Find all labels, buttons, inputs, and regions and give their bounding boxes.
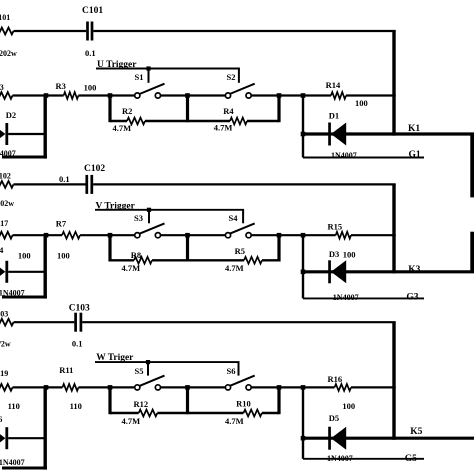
value 100	[343, 249, 356, 259]
wire left loop vertical	[44, 387, 47, 469]
wire	[251, 93, 331, 98]
switch S3	[134, 213, 165, 238]
svg-text:100: 100	[342, 401, 355, 411]
wire left loop vertical	[44, 235, 47, 298]
node U trigger bus	[96, 60, 240, 71]
svg-text:G3: G3	[406, 292, 418, 302]
wire	[78, 93, 134, 98]
svg-text:0.1: 0.1	[59, 174, 70, 184]
wire	[251, 233, 336, 238]
wire rail vertical mid	[186, 96, 189, 123]
resistor R8	[110, 250, 152, 273]
resistor R2	[110, 106, 145, 133]
value 100	[342, 401, 355, 411]
wire node vertical	[301, 96, 306, 158]
value 100	[84, 83, 97, 93]
wire K line	[303, 437, 474, 440]
value 100	[57, 250, 70, 260]
wire rail vertical right	[277, 235, 280, 261]
svg-text:G1: G1	[409, 150, 421, 160]
resistor R103 (cut at left edge)	[0, 310, 14, 349]
wire	[93, 30, 395, 32]
value 1N4007 (D2)	[0, 149, 16, 158]
svg-text:S5: S5	[135, 366, 144, 376]
value 1N4007 (D6)	[0, 458, 25, 467]
resistor left (cut) on W main wire	[0, 369, 13, 391]
svg-text:202w: 202w	[0, 49, 17, 58]
svg-text:D5: D5	[329, 413, 339, 423]
svg-text:K3: K3	[408, 265, 420, 275]
terminal G5	[405, 454, 417, 464]
svg-text:110: 110	[8, 401, 20, 411]
terminal G1	[409, 150, 421, 160]
svg-text:R7: R7	[56, 219, 67, 229]
resistor R12	[110, 399, 157, 426]
wire	[82, 321, 396, 323]
wire	[351, 386, 396, 388]
switch S2	[225, 72, 254, 98]
wire left loop bottom	[2, 156, 47, 159]
resistor left (cut) on U main wire	[0, 83, 13, 99]
svg-text:S4: S4	[229, 213, 239, 223]
svg-text:R15: R15	[328, 221, 343, 231]
svg-text:4.7M: 4.7M	[122, 263, 141, 273]
capacitor C103	[69, 304, 90, 349]
wire G line	[303, 157, 424, 159]
svg-text:G5: G5	[405, 454, 417, 464]
wire	[14, 321, 75, 323]
switch S4	[225, 213, 254, 238]
wire left loop vertical	[44, 96, 47, 159]
wire	[262, 259, 279, 261]
wire S4 actuator	[242, 210, 244, 224]
svg-text:100: 100	[355, 98, 368, 108]
wire	[161, 385, 226, 390]
wire far-right vertical	[470, 232, 474, 272]
svg-text:R4: R4	[223, 106, 234, 116]
value label	[8, 401, 20, 411]
wire	[79, 385, 135, 390]
wire	[145, 120, 230, 122]
svg-text:R12: R12	[134, 399, 149, 409]
wire G line	[303, 458, 424, 460]
capacitor C102	[59, 164, 105, 194]
terminal K1	[408, 124, 420, 134]
diode D6 (cut at left edge)	[0, 414, 8, 449]
wire	[157, 412, 243, 414]
svg-text:R8: R8	[131, 250, 141, 260]
svg-text:D3: D3	[329, 249, 339, 259]
switch S1	[135, 72, 165, 98]
svg-text:R16: R16	[328, 374, 343, 384]
svg-text:S1: S1	[135, 72, 144, 82]
svg-text:C102: C102	[84, 164, 105, 174]
svg-text:R101: R101	[0, 13, 10, 22]
wire	[14, 30, 87, 32]
wire	[13, 385, 63, 390]
value 110	[70, 401, 82, 411]
resistor R101 (cut at left edge)	[0, 13, 17, 58]
svg-text:C103: C103	[69, 304, 90, 314]
resistor R14	[326, 80, 346, 99]
wire left loop bottom	[2, 296, 47, 299]
node V trigger bus	[95, 201, 244, 212]
svg-text:R3: R3	[56, 81, 66, 91]
wire S2 actuator	[238, 69, 240, 83]
diode D3	[328, 249, 346, 283]
wire K line	[303, 270, 474, 273]
terminal K5	[410, 427, 422, 437]
wire S6 actuator	[238, 362, 240, 376]
diode D5	[328, 413, 346, 450]
svg-text:D1: D1	[329, 110, 339, 120]
svg-text:1N4007: 1N4007	[0, 458, 25, 467]
wire	[351, 234, 396, 236]
svg-text:4.7M: 4.7M	[122, 416, 141, 426]
svg-text:4.7M: 4.7M	[113, 123, 132, 133]
svg-text:D6: D6	[0, 414, 2, 424]
wire right vertical	[392, 31, 395, 136]
svg-text:100: 100	[18, 250, 31, 260]
svg-text:R2: R2	[122, 106, 132, 116]
node W trigger bus	[95, 353, 240, 364]
svg-text:K5: K5	[410, 427, 422, 437]
wire	[346, 94, 396, 96]
wire	[152, 259, 244, 261]
diode D2 (cut at left edge)	[0, 110, 16, 145]
svg-text:R5: R5	[235, 246, 245, 256]
svg-text:R17: R17	[0, 219, 8, 228]
wire G line	[303, 297, 424, 299]
svg-text:S3: S3	[134, 213, 143, 223]
value 1N4007 (D4)	[0, 289, 25, 298]
svg-text:R103: R103	[0, 310, 8, 319]
wire S5 actuator	[147, 362, 149, 376]
wire rail vertical right	[277, 96, 280, 123]
resistor left (cut) on V main wire	[0, 219, 13, 239]
resistor R15	[328, 221, 352, 238]
diode D4 (cut at left edge)	[0, 245, 8, 283]
value 1N4007 (D1)	[331, 151, 357, 160]
svg-text:0.1: 0.1	[72, 339, 83, 349]
svg-text:2/2w: 2/2w	[0, 340, 11, 349]
svg-text:R102: R102	[0, 172, 11, 181]
wire far-right vertical	[470, 134, 474, 197]
wire left loop bottom	[2, 467, 47, 470]
svg-text:0.1: 0.1	[85, 48, 96, 58]
terminal K3	[408, 265, 420, 275]
wire	[13, 233, 63, 238]
wire node vertical	[301, 235, 306, 298]
wire	[80, 233, 135, 238]
svg-text:4.7M: 4.7M	[214, 122, 233, 132]
terminal G3	[406, 292, 418, 302]
resistor R16	[328, 374, 352, 391]
wire K line	[303, 132, 474, 135]
wire	[14, 183, 86, 185]
wire	[262, 412, 279, 414]
resistor R102 (cut at left edge)	[0, 172, 14, 208]
resistor R10	[225, 398, 262, 426]
svg-text:C101: C101	[82, 6, 103, 16]
wire S1 actuator	[148, 69, 150, 83]
wire right vertical	[392, 322, 395, 440]
wire	[251, 385, 334, 390]
wire rail vertical right	[277, 387, 280, 414]
svg-text:R19: R19	[0, 369, 8, 378]
capacitor C101	[82, 6, 103, 58]
wire right vertical	[392, 184, 395, 273]
diode D1	[328, 110, 346, 145]
resistor R7	[56, 219, 80, 239]
wire	[8, 133, 45, 135]
svg-text:K1: K1	[408, 124, 420, 134]
wire	[8, 437, 45, 439]
wire	[13, 93, 64, 98]
wire	[161, 233, 226, 238]
wire rail vertical left	[108, 235, 111, 261]
svg-text:D2: D2	[6, 110, 16, 120]
switch S6	[225, 366, 254, 390]
svg-text:R10: R10	[236, 398, 251, 408]
resistor R11	[59, 365, 78, 391]
svg-text:110: 110	[70, 401, 82, 411]
svg-text:4.7M: 4.7M	[225, 416, 244, 426]
value 100	[355, 98, 368, 108]
wire rail vertical mid	[186, 387, 189, 414]
value 1N4007 (D3)	[333, 293, 359, 302]
svg-text:1N4007: 1N4007	[331, 151, 357, 160]
wire	[8, 271, 45, 273]
svg-text:100: 100	[84, 83, 97, 93]
svg-text:R14: R14	[326, 80, 341, 90]
svg-text:R11: R11	[59, 365, 73, 375]
svg-text:R13: R13	[0, 83, 4, 92]
wire	[247, 120, 279, 122]
svg-text:S2: S2	[227, 72, 236, 82]
value 1N4007 (D5)	[327, 454, 353, 463]
resistor R3	[56, 81, 79, 99]
resistor R5	[225, 246, 262, 273]
switch S5	[135, 366, 165, 390]
resistor R4	[214, 106, 247, 132]
value label	[18, 250, 31, 260]
wire	[93, 183, 396, 185]
svg-text:100: 100	[57, 250, 70, 260]
wire rail vertical left	[108, 387, 111, 414]
svg-text:S6: S6	[227, 366, 236, 376]
wire S3 actuator	[148, 210, 150, 224]
wire node vertical	[301, 387, 306, 458]
svg-text:100: 100	[343, 249, 356, 259]
svg-text:4.7M: 4.7M	[225, 263, 244, 273]
wire rail vertical mid	[186, 235, 189, 261]
svg-text:202w: 202w	[0, 199, 14, 208]
wire	[161, 93, 226, 98]
wire rail vertical left	[108, 96, 111, 123]
